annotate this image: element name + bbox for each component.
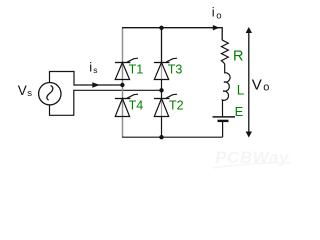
Vo measurement arrow — [246, 27, 270, 138]
battery E — [213, 116, 236, 118]
svg-text:R: R — [233, 48, 243, 64]
wire source top to left rail mid node — [50, 72, 123, 86]
svg-text:T3: T3 — [168, 63, 183, 77]
node bottom (T2 junction) — [159, 135, 163, 139]
svg-text:V: V — [18, 83, 27, 98]
svg-text:i: i — [212, 4, 215, 19]
svg-text:T4: T4 — [129, 99, 144, 113]
node right mid — [159, 88, 163, 92]
svg-text:E: E — [235, 104, 244, 119]
thyristor T2 — [154, 94, 184, 116]
AC source Vs circle — [39, 83, 61, 105]
wire source bottom to right rail mid node — [50, 90, 162, 115]
bottom wire — [122, 136, 223, 138]
node top (T3 junction) — [159, 26, 163, 30]
svg-text:L: L — [237, 83, 245, 98]
thyristor T4 — [115, 94, 143, 116]
arrow io — [213, 25, 220, 30]
watermark — [213, 148, 291, 168]
right rail (black with gray inside triangles) — [161, 28, 163, 63]
node left mid (is junction) — [120, 83, 124, 87]
resistor R — [221, 40, 228, 64]
svg-text:T1: T1 — [129, 63, 144, 77]
thyristor T1 — [115, 58, 143, 79]
sine wave inside source — [47, 86, 53, 101]
inductor L — [222, 64, 230, 117]
arrow is — [92, 82, 100, 88]
left rail (gray) — [122, 28, 124, 137]
thyristor T3 — [154, 58, 182, 79]
svg-text:o: o — [216, 11, 221, 22]
svg-text:V: V — [252, 77, 262, 94]
svg-text:T2: T2 — [169, 99, 184, 113]
svg-text:o: o — [263, 82, 269, 94]
svg-text:s: s — [93, 65, 97, 75]
svg-text:i: i — [89, 59, 92, 74]
wire battery to bottom — [222, 122, 224, 137]
svg-text:s: s — [27, 88, 32, 99]
top wire — [122, 28, 222, 40]
